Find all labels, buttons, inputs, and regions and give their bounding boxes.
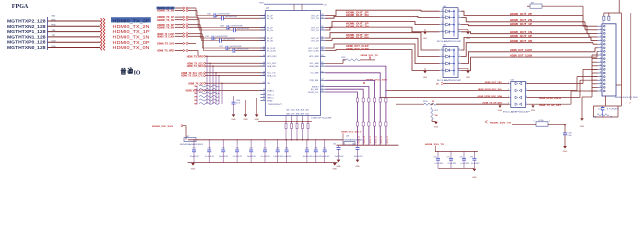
- svg-text:GND: GND: [472, 177, 477, 179]
- svg-text:SCL_CTL: SCL_CTL: [267, 73, 277, 75]
- svg-text:SCL_SNK: SCL_SNK: [310, 63, 320, 65]
- svg-text:HDMI0_TX_CLKN: HDMI0_TX_CLKN: [157, 35, 174, 38]
- svg-text:SLEW_CTL: SLEW_CTL: [308, 92, 319, 94]
- svg-text:HDMI_OUT_CLKN: HDMI_OUT_CLKN: [510, 55, 532, 58]
- svg-text:4: 4: [264, 26, 265, 28]
- svg-text:GND: GND: [466, 38, 471, 40]
- svg-text:29: 29: [321, 47, 323, 49]
- svg-text:MGTHTXP1_128: MGTHTXP1_128: [7, 29, 46, 34]
- svg-text:HDMI_C5: HDMI_C5: [387, 136, 389, 143]
- svg-text:HDMI0_TX_0P: HDMI0_TX_0P: [113, 40, 150, 45]
- svg-text:C93: C93: [276, 148, 279, 150]
- svg-text:U47: U47: [186, 136, 189, 138]
- svg-text:IN_1P: IN_1P: [267, 27, 273, 29]
- svg-text:GND: GND: [336, 166, 341, 168]
- svg-text:C149: C149: [568, 133, 572, 135]
- svg-text:U44: U44: [443, 6, 446, 8]
- svg-text:HDMI_OUT_1P: HDMI_OUT_1P: [510, 23, 532, 26]
- svg-text:1uF/16V/X5R: 1uF/16V/X5R: [217, 14, 230, 16]
- svg-text:1uF/16V/X5R: 1uF/16V/X5R: [230, 26, 243, 28]
- svg-text:25: 25: [321, 91, 323, 93]
- svg-text:OC_SNK: OC_SNK: [310, 73, 319, 75]
- svg-text:C97: C97: [323, 148, 326, 150]
- svg-text:OUT_0N: OUT_0N: [311, 40, 319, 42]
- svg-text:GND: GND: [423, 38, 428, 40]
- svg-text:HDMI0_TX_1N: HDMI0_TX_1N: [157, 19, 174, 22]
- svg-text:HDMI_TX_SCL: HDMI_TX_SCL: [187, 63, 204, 65]
- svg-text:HDMI_OUT_1N: HDMI_OUT_1N: [510, 31, 532, 34]
- svg-text:HPD_SRC: HPD_SRC: [267, 56, 277, 58]
- svg-text:HDMI_C3: HDMI_C3: [375, 136, 377, 143]
- svg-text:OUT_1P: OUT_1P: [311, 27, 319, 29]
- svg-text:OUT_2N: OUT_2N: [311, 18, 319, 20]
- svg-text:IN_CLKP: IN_CLKP: [267, 48, 276, 50]
- svg-text:IN_2N: IN_2N: [267, 18, 273, 20]
- svg-text:22: 22: [263, 82, 265, 84]
- svg-text:HDMI_DP/IN_DDC_SCL: HDMI_DP/IN_DDC_SCL: [478, 89, 503, 91]
- svg-text:HDMI_OUT_CEC: HDMI_OUT_CEC: [485, 82, 503, 84]
- svg-text:GND: GND: [498, 110, 503, 112]
- svg-text:HDMI_OUT_0N: HDMI_OUT_0N: [346, 37, 369, 40]
- svg-text:IN_0N: IN_0N: [267, 40, 273, 42]
- svg-text:31: 31: [321, 39, 323, 41]
- svg-text:14: 14: [263, 55, 265, 57]
- svg-text:U46: U46: [511, 80, 514, 82]
- svg-text:HDMI_5V0_TX: HDMI_5V0_TX: [425, 144, 445, 146]
- svg-text:1uF/16V/X5R: 1uF/16V/X5R: [215, 36, 228, 38]
- svg-text:GND: GND: [231, 119, 236, 121]
- svg-text:11: 11: [263, 49, 265, 51]
- svg-text:R102: R102: [341, 57, 345, 59]
- svg-text:GND: GND: [563, 151, 568, 153]
- svg-text:10: 10: [263, 47, 265, 49]
- svg-text:19: 19: [263, 71, 265, 73]
- svg-text:FPGA: FPGA: [12, 3, 29, 10]
- svg-text:EQ_SEL: EQ_SEL: [311, 89, 320, 91]
- svg-text:HPD_SNK: HPD_SNK: [309, 56, 319, 58]
- svg-text:20: 20: [263, 74, 265, 76]
- svg-text:1uF/16V/X5R: 1uF/16V/X5R: [223, 39, 236, 41]
- svg-text:GND: GND: [333, 169, 338, 171]
- svg-text:38: 38: [321, 14, 323, 16]
- svg-text:R51: R51: [435, 110, 438, 112]
- svg-text:C89: C89: [222, 148, 225, 150]
- svg-text:37: 37: [321, 17, 323, 19]
- svg-text:MGTHTXN2_128: MGTHTXN2_128: [7, 24, 46, 29]
- svg-text:PRE_SEL: PRE_SEL: [310, 80, 320, 82]
- svg-text:GND: GND: [434, 127, 439, 129]
- svg-text:HDMI_C1: HDMI_C1: [364, 136, 366, 143]
- svg-text:IN_2P: IN_2P: [267, 15, 273, 17]
- svg-text:35: 35: [321, 26, 323, 28]
- svg-text:HDMI_TX_5V0: HDMI_TX_5V0: [157, 43, 175, 46]
- svg-text:IN_1N: IN_1N: [267, 30, 273, 32]
- svg-text:OUT_2P: OUT_2P: [311, 15, 319, 17]
- svg-text:GND_2: GND_2: [267, 97, 275, 99]
- svg-text:GND: GND: [243, 119, 248, 121]
- svg-text:HDMI0_TX_2N: HDMI0_TX_2N: [157, 10, 174, 13]
- svg-text:1: 1: [549, 121, 550, 123]
- svg-text:C95: C95: [305, 148, 308, 150]
- svg-text:TMDS181RGZT: TMDS181RGZT: [268, 104, 283, 106]
- svg-text:16: 16: [263, 62, 265, 64]
- svg-text:5: 5: [264, 29, 265, 31]
- svg-text:MGTHTXN0_128: MGTHTXN0_128: [7, 45, 46, 50]
- svg-text:MGTHTXP0_128: MGTHTXP0_128: [7, 40, 46, 45]
- svg-text:2: 2: [264, 17, 265, 19]
- svg-text:1uF/16V/X5R: 1uF/16V/X5R: [229, 46, 242, 48]
- svg-text:OUT_CLKP: OUT_CLKP: [308, 48, 319, 50]
- svg-text:HDMI0_TX_0N: HDMI0_TX_0N: [113, 45, 150, 50]
- svg-text:GND: GND: [531, 110, 536, 112]
- svg-text:HDMI0_TX_2N: HDMI0_TX_2N: [113, 24, 150, 29]
- svg-text:HDMI_VCC_5V0_T: HDMI_VCC_5V0_T: [342, 131, 363, 133]
- svg-text:DSITUP GainSE: DSITUP GainSE: [312, 118, 333, 120]
- svg-text:1uF/16V/X5R: 1uF/16V/X5R: [237, 28, 250, 30]
- svg-text:39: 39: [321, 65, 323, 67]
- svg-text:L48: L48: [346, 135, 349, 137]
- svg-text:R88: R88: [194, 103, 197, 105]
- svg-text:HDMI-19S-20 RLF: HDMI-19S-20 RLF: [615, 97, 638, 99]
- svg-text:V3R3: V3R3: [259, 3, 264, 5]
- svg-text:23: 23: [263, 89, 265, 91]
- svg-text:46 47 48 49 50: 46 47 48 49 50: [286, 113, 309, 115]
- svg-text:C96: C96: [314, 148, 317, 150]
- svg-text:41 42 43 44 45: 41 42 43 44 45: [286, 109, 309, 111]
- svg-text:OUT_CLKN: OUT_CLKN: [308, 50, 319, 52]
- svg-text:2: 2: [534, 121, 535, 123]
- svg-text:GND: GND: [466, 77, 471, 79]
- svg-text:36: 36: [321, 71, 323, 73]
- svg-text:IN_CLKN: IN_CLKN: [267, 50, 276, 52]
- svg-text:1uF/16V/X5R: 1uF/16V/X5R: [225, 16, 238, 18]
- svg-text:HDMI0_TX_1N: HDMI0_TX_1N: [113, 35, 150, 40]
- svg-text:40: 40: [321, 62, 323, 64]
- svg-text:HDMI_TX_HP_DET: HDMI_TX_HP_DET: [483, 103, 503, 105]
- svg-text:MGTHTXN1_128: MGTHTXN1_128: [7, 34, 46, 39]
- svg-text:OUT_1N: OUT_1N: [311, 30, 319, 32]
- svg-text:C91: C91: [250, 148, 253, 150]
- svg-text:[P]: [P]: [436, 84, 439, 86]
- svg-text:GND: GND: [355, 166, 360, 168]
- svg-text:1uF/16V/X5R: 1uF/16V/X5R: [236, 49, 249, 51]
- svg-text:30: 30: [321, 85, 323, 87]
- svg-text:24: 24: [263, 93, 265, 95]
- svg-text:C94: C94: [285, 148, 288, 150]
- svg-text:IO: IO: [134, 70, 141, 76]
- svg-text:C88: C88: [208, 148, 211, 150]
- svg-text:RXDET: RXDET: [312, 86, 320, 88]
- svg-text:R100: R100: [423, 101, 428, 103]
- svg-text:C164: C164: [236, 100, 240, 102]
- svg-text:HDMI_OUT_0N: HDMI_OUT_0N: [510, 40, 532, 43]
- svg-text:HDMI_TX_SCL_CTL: HDMI_TX_SCL_CTL: [181, 73, 203, 75]
- svg-text:GND_1: GND_1: [267, 94, 275, 96]
- svg-text:HDMI_C2: HDMI_C2: [370, 136, 372, 143]
- svg-text:C87: C87: [192, 148, 195, 150]
- svg-text:C90: C90: [236, 148, 239, 150]
- svg-text:C92: C92: [263, 148, 266, 150]
- svg-text:43: 43: [263, 96, 265, 98]
- svg-text:7: 7: [264, 37, 265, 39]
- svg-text:28: 28: [321, 49, 323, 51]
- svg-text:HDMI_TX_HPD: HDMI_TX_HPD: [187, 56, 204, 58]
- svg-text:MGTHTXP2_128: MGTHTXP2_128: [7, 19, 46, 24]
- svg-text:GND: GND: [423, 77, 428, 79]
- svg-text:HDMI_C4: HDMI_C4: [381, 136, 383, 143]
- svg-text:HDMI_OUT_2P: HDMI_OUT_2P: [510, 13, 532, 16]
- svg-text:HDMI_TX_HP_DET: HDMI_TX_HP_DET: [539, 105, 562, 107]
- svg-text:HDMI_OUT_2N: HDMI_OUT_2N: [346, 14, 369, 17]
- svg-text:HDMI_5V0_TX: HDMI_5V0_TX: [490, 122, 512, 124]
- svg-text:HDMI_OUT_CLKP: HDMI_OUT_CLKP: [510, 49, 532, 52]
- svg-text:GND: GND: [191, 169, 196, 171]
- svg-text:IN_0P: IN_0P: [267, 38, 273, 40]
- svg-text:HDMI_TX_HPD: HDMI_TX_HPD: [157, 50, 174, 53]
- svg-text:27: 27: [321, 88, 323, 90]
- svg-text:GND: GND: [254, 119, 259, 121]
- svg-text:1: 1: [264, 14, 265, 16]
- svg-text:HDMI0_TX_1P: HDMI0_TX_1P: [113, 29, 150, 34]
- svg-text:HDMI0_TX_0N: HDMI0_TX_0N: [157, 26, 174, 29]
- svg-text:33: 33: [321, 79, 323, 81]
- svg-text:0.1uF: 0.1uF: [236, 102, 240, 104]
- svg-text:26: 26: [321, 55, 323, 57]
- svg-text:49: 49: [263, 99, 265, 101]
- svg-text:HDMI_OUT_0P: HDMI_OUT_0P: [510, 35, 532, 38]
- svg-text:8: 8: [264, 39, 265, 41]
- svg-text:SCL_SRC: SCL_SRC: [267, 63, 277, 65]
- svg-text:HDMI_RX_5V0: HDMI_RX_5V0: [152, 126, 174, 128]
- svg-text:17: 17: [263, 65, 265, 67]
- svg-text:GND: GND: [580, 126, 585, 128]
- svg-text:HDMI_OUT_1N: HDMI_OUT_1N: [346, 25, 369, 28]
- svg-text:HDMI_OUT_2N: HDMI_OUT_2N: [510, 19, 532, 22]
- svg-text:HDMI0_TX_2P: HDMI0_TX_2P: [113, 19, 150, 24]
- svg-text:HDMI_OUT_CLKN: HDMI_OUT_CLKN: [346, 48, 369, 51]
- svg-text:34: 34: [321, 29, 323, 31]
- svg-text:32: 32: [321, 37, 323, 39]
- svg-text:OUT_0P: OUT_0P: [311, 38, 319, 40]
- svg-text:U45: U45: [443, 45, 446, 47]
